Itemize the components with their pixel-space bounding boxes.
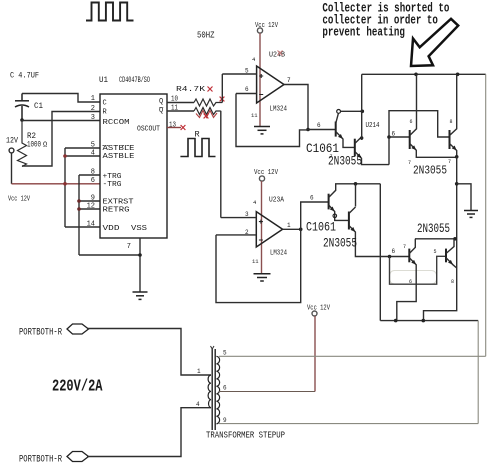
wire opamp1 feedback (236, 94, 308, 147)
wire base feed jog bottom (390, 256, 447, 284)
svg-text:11: 11 (251, 112, 258, 119)
svg-text:Vcc 12V: Vcc 12V (254, 169, 278, 177)
wire pin 3 RCC (22, 120, 100, 122)
svg-text:U23A: U23A (269, 197, 285, 205)
wire opamp2 output (283, 228, 301, 230)
svg-text:3: 3 (91, 114, 95, 122)
ground under opamp1 (254, 127, 270, 134)
wire pin 14 VDD (65, 226, 100, 228)
transformer secondary winding (216, 356, 219, 424)
svg-text:5: 5 (91, 142, 95, 150)
svg-text:LM324: LM324 (270, 106, 288, 114)
ground under opamp2 (254, 274, 271, 281)
wire port bottom to transformer pin 4 (87, 408, 211, 457)
wire trigger net to VSS (79, 254, 140, 256)
svg-text:7: 7 (448, 159, 451, 165)
transistor C1061 bottom driver (328, 194, 330, 210)
svg-text:CD4047B/SO: CD4047B/SO (119, 76, 150, 85)
svg-text:1: 1 (197, 368, 201, 375)
wire Vcc to opamp1 and ground (259, 33, 261, 126)
transistor 2N3055 T1 top-out (409, 130, 411, 149)
svg-text:PORTBOTH-R: PORTBOTH-R (19, 328, 62, 339)
svg-text:RCCOM: RCCOM (103, 119, 130, 127)
svg-text:PORTBOTH-R: PORTBOTH-R (19, 455, 62, 465)
ground right side (464, 211, 478, 218)
op-amp U24B triangle (257, 66, 284, 103)
clock waveform symbol top-left (86, 3, 134, 21)
svg-text:7: 7 (408, 160, 411, 166)
ground below IC (133, 292, 148, 299)
wire 12V red rail to pin 6 (12, 183, 101, 185)
wire pin 9 (79, 200, 100, 202)
svg-text:TRANSFORMER STEPUP: TRANSFORMER STEPUP (206, 431, 285, 441)
svg-text:RETRG: RETRG (103, 207, 130, 215)
wire pin 11 Qbar (167, 110, 194, 112)
node pin9 tee (77, 199, 81, 203)
wire Vcc to opamp2 and ground (261, 181, 263, 273)
transistor 2N3055 T2 top-out (449, 130, 451, 149)
svg-text:11: 11 (252, 258, 259, 265)
svg-text:VDD: VDD (103, 225, 120, 233)
svg-text:14: 14 (87, 221, 95, 229)
wire collector tie down to bus (379, 184, 381, 321)
svg-text:6: 6 (409, 279, 412, 285)
wire top V+ rail (362, 73, 486, 75)
wire to ground right (457, 184, 471, 210)
svg-text:U1: U1 (99, 76, 108, 85)
svg-text:Vcc 12V: Vcc 12V (307, 305, 330, 313)
svg-text:6: 6 (317, 122, 321, 129)
wire bus down to transformer pin9 (477, 321, 479, 424)
svg-text:2N3055: 2N3055 (417, 222, 450, 236)
svg-text:13: 13 (169, 122, 176, 130)
svg-text:2N3055: 2N3055 (413, 164, 447, 178)
svg-text:1: 1 (91, 95, 95, 103)
wire opamp2 out up to base Q4 (301, 202, 329, 229)
svg-text:7: 7 (403, 244, 406, 250)
transistor 2N3055 T1 bottom-out (408, 249, 410, 263)
svg-text:12: 12 (87, 203, 95, 211)
svg-text:4: 4 (196, 401, 200, 408)
big arrow pointing to transistors (411, 19, 458, 66)
transformer T1 core (211, 349, 213, 430)
note text collector shorted (322, 1, 449, 39)
wire base 2N3055 T1 (389, 136, 410, 138)
svg-text:7: 7 (287, 77, 291, 84)
node emitter join top pair (455, 155, 459, 159)
wire base feed jog top (389, 111, 450, 165)
svg-text:6: 6 (310, 195, 314, 202)
svg-text:5: 5 (245, 68, 249, 75)
wire pin 8 (79, 174, 100, 176)
svg-text:OSCOUT: OSCOUT (137, 126, 160, 134)
svg-text:4: 4 (91, 150, 95, 158)
svg-text:-TRG: -TRG (103, 181, 122, 189)
svg-text:12V: 12V (6, 136, 19, 146)
svg-text:5: 5 (223, 350, 227, 357)
svg-text:2: 2 (91, 105, 95, 113)
wire pin 5 (65, 147, 100, 149)
wire secondary pin 9 to bus drop (219, 423, 478, 425)
svg-text:8: 8 (91, 169, 95, 177)
wire 12V terminal down (11, 153, 13, 184)
artifact faint box (390, 271, 437, 285)
svg-text:R4.7K: R4.7K (176, 86, 206, 94)
wire right side drop to transformer (485, 74, 487, 356)
svg-text:ASTBLE: ASTBLE (103, 145, 135, 153)
svg-text:6: 6 (223, 385, 227, 392)
svg-text:7: 7 (330, 154, 333, 160)
svg-text:6: 6 (91, 177, 95, 185)
wire opamp2 - input (216, 234, 256, 236)
svg-text:7: 7 (127, 243, 131, 251)
svg-text:1: 1 (287, 222, 291, 229)
svg-text:9: 9 (91, 195, 95, 203)
svg-text:8: 8 (450, 119, 453, 125)
svg-text:C1061: C1061 (306, 221, 336, 235)
wire collectors to rail (361, 74, 363, 140)
svg-text:ASTBLE: ASTBLE (103, 153, 135, 161)
wire Q to opamp1 + (221, 74, 223, 103)
wire VDD net vertical (64, 148, 66, 227)
wire opamp2 feedback (216, 229, 301, 302)
wire port top to transformer pin 1 (87, 329, 211, 376)
resistor R (red overlap) on Qbar (194, 108, 221, 115)
wire R2 bottom to pin 2 (22, 112, 100, 167)
wire output node down right side (424, 157, 457, 321)
resistor R2 (18, 121, 27, 167)
wire Vcc to transformer pin 6 (314, 316, 316, 392)
capacitor C1 (15, 94, 29, 121)
transformer primary winding (208, 375, 211, 408)
svg-text:6: 6 (392, 248, 396, 255)
svg-text:220V/2A: 220V/2A (52, 378, 103, 397)
svg-text:C 4.7UF: C 4.7UF (10, 71, 39, 81)
svg-text:Q: Q (159, 98, 163, 106)
node VSS junction (138, 253, 142, 257)
svg-text:6: 6 (245, 86, 249, 93)
node VDD/pin4 (63, 154, 67, 158)
svg-text:50HZ: 50HZ (197, 31, 215, 41)
svg-text:2N3055: 2N3055 (323, 237, 357, 251)
op-amp U1 CD4047 body (100, 94, 167, 238)
svg-text:6: 6 (410, 119, 413, 125)
no-connect marks red (181, 87, 225, 131)
transistor C1061 top driver (335, 122, 337, 137)
wire pin 12 (79, 208, 100, 210)
svg-text:+TRG: +TRG (103, 173, 122, 181)
svg-text:Ω: Ω (43, 142, 47, 150)
wire pin 4 (65, 155, 100, 157)
svg-text:U24B: U24B (269, 52, 285, 60)
node collector join (361, 110, 365, 114)
svg-text:U214: U214 (366, 122, 380, 130)
wire pin 13 OSCOUT (167, 127, 181, 129)
svg-text:C1: C1 (34, 101, 43, 111)
transistor 2N3055 bottom driver (348, 212, 350, 230)
svg-text:Q: Q (159, 107, 163, 115)
wire secondary pin 5 to right rail (219, 355, 486, 357)
node opamp1 out (306, 128, 310, 132)
wire VSS to ground (139, 238, 141, 292)
resistor R4.7K on Q (194, 99, 222, 106)
svg-text:3: 3 (245, 211, 249, 218)
wire collector tie bottom pair (415, 238, 457, 240)
wire opamp2 + input (221, 217, 256, 219)
svg-text:EXTRST: EXTRST (103, 199, 134, 207)
svg-text:VSS: VSS (131, 225, 147, 233)
wire base Q1 (308, 129, 336, 131)
wire bottom emitter bus (380, 320, 478, 322)
wire opamp1 + input (222, 73, 256, 75)
svg-text:1000: 1000 (27, 140, 41, 150)
node pin12 tee (77, 207, 81, 211)
svg-text:LM324: LM324 (270, 250, 287, 258)
wire pin 10 Q (167, 102, 194, 104)
wire cap top to pin 1 (22, 94, 100, 103)
svg-text:6: 6 (392, 131, 396, 138)
wire opamp1 - input (236, 93, 257, 95)
wire secondary pin 6 to Vcc (219, 391, 315, 393)
oscout waveform symbol (180, 139, 215, 157)
node VDD/12V rail (63, 182, 67, 186)
node opamp2 out (299, 228, 303, 232)
tiny pin digits (330, 119, 455, 285)
svg-text:9: 9 (223, 417, 227, 424)
transistor 2N3055 T2 bottom-out (445, 249, 447, 263)
svg-text:C: C (103, 100, 107, 108)
wire Qbar to opamp2 + (220, 111, 222, 218)
node ground tee (455, 182, 459, 186)
svg-text:2N3055: 2N3055 (328, 155, 362, 169)
op-amp U23A triangle (256, 212, 282, 247)
svg-text:Vcc 12V: Vcc 12V (8, 196, 30, 204)
svg-text:5: 5 (434, 249, 437, 255)
node driver emitter tee (388, 255, 392, 259)
wire trigger net vertical (78, 175, 80, 255)
transistor 2N3055 top driver (354, 139, 356, 156)
node cap/R2/pin3 junction (20, 118, 24, 122)
svg-text:8: 8 (451, 279, 454, 285)
wire opamp1 output (284, 85, 308, 130)
svg-text:prevent heating: prevent heating (322, 25, 405, 39)
svg-text:2: 2 (245, 229, 249, 236)
